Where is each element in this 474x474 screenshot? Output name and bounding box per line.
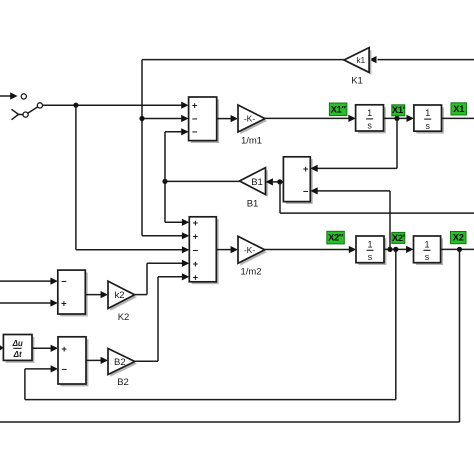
svg-text:+: + (193, 259, 199, 270)
integrator 1b (414, 105, 442, 131)
integrator 2b shadow (416, 238, 443, 265)
wire derivative input (0, 347, 1, 349)
svg-text:X2′: X2′ (392, 233, 406, 243)
label X1'' (329, 103, 347, 116)
svg-text:-K-: -K- (244, 245, 256, 255)
sum S1 shadow (191, 99, 219, 143)
wire X2 feedback bottom (0, 421, 460, 423)
label X2'' (327, 231, 345, 244)
wire to S2 input 1 (165, 219, 189, 226)
wire k1 output left (142, 59, 344, 61)
integrator 1a (356, 105, 384, 131)
svg-text:1: 1 (424, 239, 429, 249)
integrator 1a shadow (358, 107, 386, 133)
svg-text:X1″: X1″ (331, 104, 347, 114)
wire S4 input 1 (0, 278, 58, 285)
label X2 (451, 232, 467, 244)
svg-text:s: s (425, 252, 430, 262)
wire k2 elbow to S2 input 4 (135, 260, 190, 295)
sum S5 shadow (60, 339, 88, 386)
gain k1 shadow (346, 50, 371, 75)
node k1 junction (139, 116, 144, 121)
wire integrator 2a to 2b (384, 246, 414, 253)
node S3 output junction (277, 179, 282, 184)
wire X2' feedback up (24, 369, 26, 400)
wire derivative output to S5 (32, 345, 58, 352)
node X2 junction (457, 247, 462, 252)
node X2' junction b (393, 247, 398, 252)
wire S3 right (280, 212, 474, 214)
sum S3 (283, 157, 310, 202)
svg-text:B2: B2 (114, 357, 126, 368)
sum S3 shadow (286, 159, 313, 204)
wire switch output to sum S1 (43, 102, 189, 109)
wire to S2 input 2 (142, 232, 189, 239)
switch port circle top (21, 94, 26, 99)
gain 1/m1 (238, 105, 265, 147)
sum S2 (189, 217, 216, 283)
derivative block du/dt (3, 335, 32, 361)
svg-text:1: 1 (367, 239, 372, 249)
svg-text:s: s (368, 252, 373, 262)
gain B2 (108, 349, 135, 389)
wire k1 to S1 input 2 (142, 115, 189, 122)
svg-text:1/m2: 1/m2 (240, 267, 261, 278)
wire X2' feedback down (395, 249, 397, 399)
wire B1 net vertical (164, 132, 166, 223)
wire S4 input 2 (0, 299, 58, 306)
integrator 2a shadow (358, 238, 386, 265)
wire S5 output to gain B2 (86, 357, 108, 364)
svg-text:X2: X2 (453, 233, 464, 243)
svg-text:1: 1 (367, 108, 372, 118)
integrator 2a (356, 236, 384, 263)
wire X1' to S3 plus (310, 118, 397, 172)
svg-text:B1: B1 (251, 177, 263, 188)
switch fork input 2 (12, 109, 23, 119)
node B1 junction (162, 179, 167, 184)
wire junction down (75, 105, 77, 250)
svg-text:k1: k1 (357, 56, 366, 65)
wire B2 elbow to S2 input 5 (135, 273, 190, 361)
svg-text:+: + (61, 344, 67, 355)
label X1' (392, 105, 406, 116)
wire k1 vertical (141, 60, 143, 236)
wire X2 out (441, 248, 474, 250)
wire k1 input from right (369, 56, 474, 63)
wire to S5 minus (25, 365, 58, 372)
wire S3 down (279, 182, 281, 213)
svg-text:s: s (367, 121, 372, 131)
svg-text:K2: K2 (118, 312, 130, 323)
gain k2 (108, 281, 135, 323)
wire X1 out (442, 117, 474, 119)
wire B1 output to nets (165, 180, 240, 182)
wire X2' to S3 minus (310, 187, 390, 249)
svg-text:k2: k2 (114, 290, 124, 301)
wire S3 output to B1 (266, 178, 284, 185)
node X2' junction a (387, 247, 392, 252)
label X1 (451, 103, 467, 115)
gain 1/m2 shadow (240, 239, 267, 266)
wire to sum S2 input 3 (76, 246, 189, 253)
sum S1 (189, 97, 217, 141)
svg-text:−: − (193, 245, 199, 256)
node X1' junction (394, 116, 399, 121)
gain B1 (240, 168, 266, 210)
svg-text:B2: B2 (117, 377, 129, 388)
gain 1/m2 (238, 236, 265, 277)
svg-text:+: + (192, 101, 198, 112)
svg-text:1/m1: 1/m1 (241, 136, 262, 147)
wire S1 output to gain 1/m1 (217, 115, 238, 122)
node junction switch (73, 103, 78, 108)
svg-text:−: − (192, 127, 198, 138)
integrator 1b shadow (416, 107, 444, 133)
gain B1 shadow (242, 170, 268, 197)
wire integrator 1a to 1b (384, 115, 414, 122)
wire X2' feedback bottom (25, 399, 396, 401)
svg-text:+: + (193, 272, 199, 283)
wire 1/m2 to integrator 2a (265, 246, 357, 253)
svg-text:Δt: Δt (13, 350, 22, 359)
svg-text:K1: K1 (351, 76, 363, 87)
svg-text:−: − (61, 365, 67, 376)
svg-text:+: + (303, 164, 309, 175)
svg-text:Δu: Δu (12, 339, 23, 348)
gain 1/m1 shadow (240, 107, 267, 134)
svg-text:X2″: X2″ (328, 233, 344, 243)
wire X2 feedback down (459, 249, 461, 422)
svg-text:+: + (61, 299, 67, 310)
svg-text:−: − (61, 277, 67, 288)
sum S4 (58, 270, 86, 314)
wire S2 output to gain 1/m2 (216, 246, 238, 253)
svg-text:B1: B1 (247, 199, 259, 210)
wire S4 output to gain k2 (85, 291, 108, 298)
svg-text:1: 1 (425, 108, 430, 118)
svg-text:+: + (193, 231, 199, 242)
gain B2 shadow (110, 351, 137, 377)
gain k2 shadow (110, 283, 137, 311)
svg-text:−: − (192, 114, 198, 125)
derivative block shadow (6, 337, 35, 363)
wire B1 to S1 input 3 (165, 128, 189, 135)
svg-text:−: − (303, 186, 309, 197)
wire 1/m1 to integrator (265, 115, 356, 122)
svg-text:-K-: -K- (244, 114, 256, 124)
svg-text:X1: X1 (453, 104, 464, 114)
sum S5 (58, 337, 86, 384)
switch port circle output (37, 103, 42, 108)
sum S4 shadow (60, 273, 87, 317)
svg-text:s: s (425, 121, 430, 131)
integrator 2b (414, 236, 441, 263)
wire switch input 1 (0, 92, 18, 99)
svg-text:+: + (193, 218, 199, 229)
gain k1 (344, 48, 369, 87)
switch lever (28, 107, 38, 113)
switch port circle bottom (23, 112, 28, 117)
label X2' (392, 232, 406, 243)
sum S2 shadow (192, 219, 219, 284)
svg-text:X1′: X1′ (392, 105, 406, 115)
